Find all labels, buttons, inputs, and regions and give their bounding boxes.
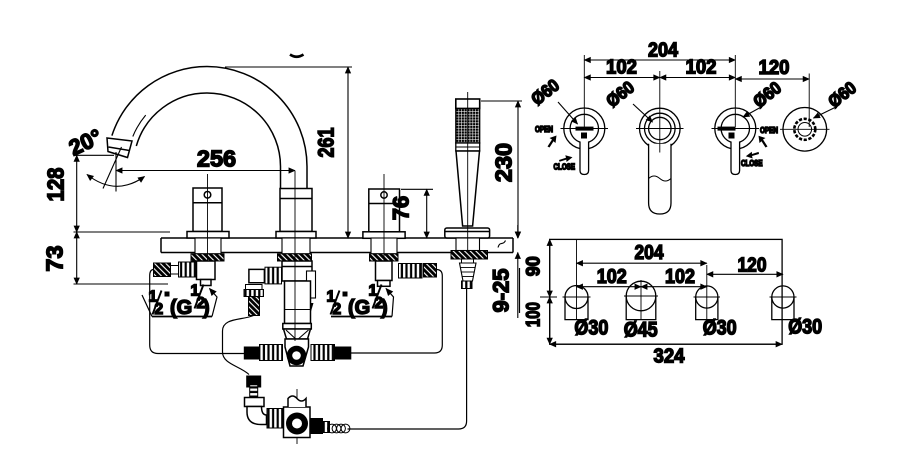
label D60 handle2 [743, 77, 785, 117]
svg-text:90: 90 [524, 256, 545, 276]
central tee left hose end [244, 347, 259, 359]
label D60 shower [814, 77, 861, 118]
hand shower hose [348, 288, 467, 429]
right handle valve body [376, 261, 393, 281]
shower holder crosshair [780, 128, 830, 130]
mid elbow lower rings [246, 285, 263, 290]
shower hose coil [328, 424, 350, 433]
dim 90 line [549, 239, 551, 297]
spout plan circles [640, 108, 681, 149]
hole1 center line [576, 240, 578, 320]
hole2 slot [626, 296, 656, 320]
dim 20 degree: angle arc [87, 175, 145, 187]
dim 261 line [347, 67, 349, 238]
dim 120 line top plan [735, 78, 809, 80]
dim 9-25 line with arrow to deck bottom [517, 253, 519, 319]
hand shower mounting nut [451, 251, 488, 260]
spout supply tube [285, 281, 311, 324]
dim 128 extension line top [74, 154, 115, 156]
dim 102 left line top plan [584, 77, 660, 79]
dim 324 arrows on bottom edge [550, 343, 782, 345]
extension line spout plan [659, 71, 661, 146]
spout plan center line [659, 143, 661, 153]
dim 128 extension line bottom [74, 231, 171, 233]
svg-text:Ø60: Ø60 [749, 77, 785, 111]
spout mounting nut [278, 254, 312, 261]
diverter right hose end [311, 419, 323, 434]
dim 128 line [76, 155, 78, 232]
dim 102 right hole plan [641, 286, 707, 288]
dim 256 line [116, 170, 295, 172]
handle1 lever top mark [576, 127, 594, 131]
central tee right hose end [335, 347, 351, 359]
spout side tab [307, 271, 316, 298]
extension line handle1 [583, 55, 585, 127]
shower holder gear ring [794, 119, 815, 140]
diverter ball [286, 413, 308, 435]
hole1 slot [565, 297, 588, 320]
svg-text:102: 102 [665, 265, 695, 288]
spout plan crosshair [636, 128, 684, 130]
left handle nipple collar [171, 266, 179, 275]
dim 261 extension line top [225, 66, 352, 68]
label G1/2 right [327, 283, 394, 320]
handle2 plan circles [715, 108, 756, 149]
svg-text:9-25: 9-25 [489, 269, 514, 313]
dim 9-25 upper arrow [517, 225, 519, 238]
handle2 crosshair [712, 128, 760, 130]
spout deck shank [282, 238, 310, 254]
diverter elbow [247, 407, 267, 425]
svg-text:100: 100 [524, 302, 545, 327]
hole1 crosshair [563, 296, 591, 298]
dim 204 hole plan [577, 262, 707, 264]
svg-text:204: 204 [648, 39, 679, 62]
hole4 crosshair [770, 296, 797, 298]
extension line shower plan [808, 74, 810, 128]
spout gooseneck outer arc [112, 67, 307, 191]
svg-text:OPEN: OPEN [535, 125, 553, 134]
left handle flange [187, 232, 229, 239]
label D60 handle1 [527, 75, 577, 124]
svg-text:Ø30: Ø30 [574, 317, 608, 340]
central tee housing [285, 339, 309, 366]
close arrow handle2 [746, 152, 759, 159]
shower holder plan circle [783, 108, 827, 152]
extension line handle2 [734, 55, 736, 127]
mid elbow hose nipple G1/2 [249, 297, 260, 316]
dim 102 left hole plan [577, 286, 642, 288]
dim 73 extension line bottom [74, 283, 169, 285]
svg-text:CLOSE: CLOSE [554, 163, 576, 172]
right handle body [369, 189, 400, 232]
left handle bottom stub [201, 280, 212, 286]
spout side tab tip [308, 303, 314, 313]
dim 102 right line top plan [660, 77, 736, 79]
label D60 spout [602, 77, 652, 122]
right handle hose to tee [351, 270, 442, 354]
spout plan tube break [649, 176, 671, 181]
svg-text:2: 2 [333, 301, 342, 318]
left handle deck shank [195, 238, 221, 254]
central tee funnel cross lines [286, 330, 306, 348]
svg-text:120: 120 [759, 56, 790, 79]
right handle outlet compression nut [399, 264, 423, 279]
dim 230 line [517, 101, 519, 238]
central tee ball [287, 346, 307, 366]
hand shower holder plate [445, 228, 490, 238]
dim 20 degree angle: nozzle axis extension line [103, 147, 122, 189]
open arrow handle1 [548, 136, 557, 148]
open arrow handle2 [759, 136, 768, 148]
svg-text:OPEN: OPEN [760, 126, 778, 135]
spout base flange [276, 232, 316, 239]
svg-text:120: 120 [738, 254, 767, 277]
svg-text:Ø30: Ø30 [788, 316, 822, 339]
diverter top hose end [247, 376, 261, 387]
hole2 circle [626, 281, 656, 311]
left handle hose to tee [150, 270, 244, 354]
svg-text:102: 102 [597, 265, 627, 288]
hand shower hose rib rings [462, 281, 473, 289]
dim 73 line [76, 232, 78, 284]
spout tube lower flange [283, 324, 312, 330]
hand shower hose connector [462, 259, 474, 263]
svg-text:261: 261 [314, 128, 339, 158]
close arrow handle1 [559, 155, 573, 162]
hand shower head cap [456, 99, 480, 109]
hole3 circle [696, 286, 718, 308]
dim 20 degree: vertical reference line [115, 152, 117, 192]
handle2 lever top mark [718, 127, 736, 131]
svg-text:Ø30: Ø30 [703, 317, 737, 340]
central tee right compression fitting [311, 345, 335, 361]
right handle hose nipple G1/2 [424, 264, 437, 278]
deck break squiggle [498, 241, 506, 248]
hand shower hose spring guard [460, 263, 477, 281]
diverter small ribs [323, 422, 330, 433]
left handle mounting nut [191, 254, 224, 261]
small logo mark top [290, 55, 304, 57]
hand shower collar band [456, 143, 480, 151]
svg-text:Ø60: Ø60 [602, 77, 638, 111]
svg-text:Ø60: Ø60 [824, 77, 860, 111]
spout tube accent line [133, 115, 146, 136]
hole2 crosshair [624, 295, 658, 297]
svg-text:102: 102 [606, 56, 637, 79]
spout riser body [280, 189, 312, 232]
diverter top stub with break [288, 396, 306, 407]
handle2 lever [731, 142, 740, 175]
right handle screw [381, 192, 387, 198]
hand shower center line [467, 92, 469, 252]
spout below-deck body [282, 261, 312, 281]
dim 120 hole plan [707, 273, 783, 275]
hole4 circle [772, 286, 794, 308]
left handle valve body [197, 261, 216, 280]
right handle bottom stub [378, 281, 391, 287]
dim 76 line [426, 189, 428, 238]
right handle mounting nut [370, 254, 399, 261]
dim 100 line [549, 297, 551, 344]
handle1 crosshair [561, 128, 609, 130]
right handle center line [383, 174, 385, 261]
handle1 plan circles [564, 108, 605, 149]
holes horizontal center line tick [540, 296, 557, 298]
svg-text:128: 128 [43, 168, 69, 202]
hand shower handle [456, 151, 480, 226]
right handle flange [363, 232, 405, 239]
svg-text:256: 256 [197, 146, 236, 172]
svg-text:2: 2 [155, 301, 164, 318]
diverter compression nut [245, 398, 265, 407]
hole2 center line [640, 280, 642, 320]
hole3 center line [706, 265, 708, 320]
diverter top rib rings [250, 385, 258, 398]
spout gooseneck inner arc [136, 93, 280, 190]
label 9-25 underline [519, 268, 521, 313]
hole4 slot [772, 297, 794, 320]
hole1 circle [565, 286, 588, 309]
mid elbow hose to diverter [223, 316, 254, 375]
label G1/2 left [142, 283, 217, 320]
left handle body [193, 188, 222, 232]
hole3 slot [696, 297, 718, 320]
deck slab [161, 238, 513, 253]
svg-text:230: 230 [491, 143, 517, 182]
svg-text:76: 76 [389, 196, 414, 220]
spout center line [294, 171, 296, 341]
hole3 crosshair [694, 296, 721, 298]
diverter tee body [284, 407, 311, 438]
left handle screw [204, 192, 211, 199]
svg-text:CLOSE: CLOSE [741, 159, 763, 168]
central tee left compression fitting [260, 345, 283, 361]
left handle center line [207, 174, 209, 261]
dim 230 extension line top [481, 100, 522, 102]
handle1 lever [580, 142, 589, 175]
hand shower knurled grip [456, 109, 480, 144]
right handle deck shank [371, 238, 397, 254]
diverter center line [296, 389, 298, 444]
tub rim outline [550, 239, 782, 344]
spout nozzle [107, 138, 132, 158]
svg-text:102: 102 [686, 56, 717, 79]
hand shower deck shank [456, 238, 480, 251]
svg-text:Ø45: Ø45 [624, 319, 658, 342]
svg-text:73: 73 [42, 245, 68, 271]
svg-text:204: 204 [635, 241, 664, 264]
mid elbow compression nut [265, 267, 282, 284]
mid elbow at spout body [249, 269, 265, 282]
svg-text:Ø60: Ø60 [527, 75, 563, 109]
diverter coupling ribs [267, 409, 283, 429]
dim 76 extension line top [401, 188, 433, 190]
svg-text:324: 324 [654, 345, 686, 368]
dim 204 line top plan [584, 59, 735, 61]
spout plan tube [649, 144, 671, 214]
left handle hose nipple G1/2 [154, 263, 171, 277]
central tee funnel [284, 329, 311, 339]
left handle outlet compression nut [179, 262, 197, 277]
